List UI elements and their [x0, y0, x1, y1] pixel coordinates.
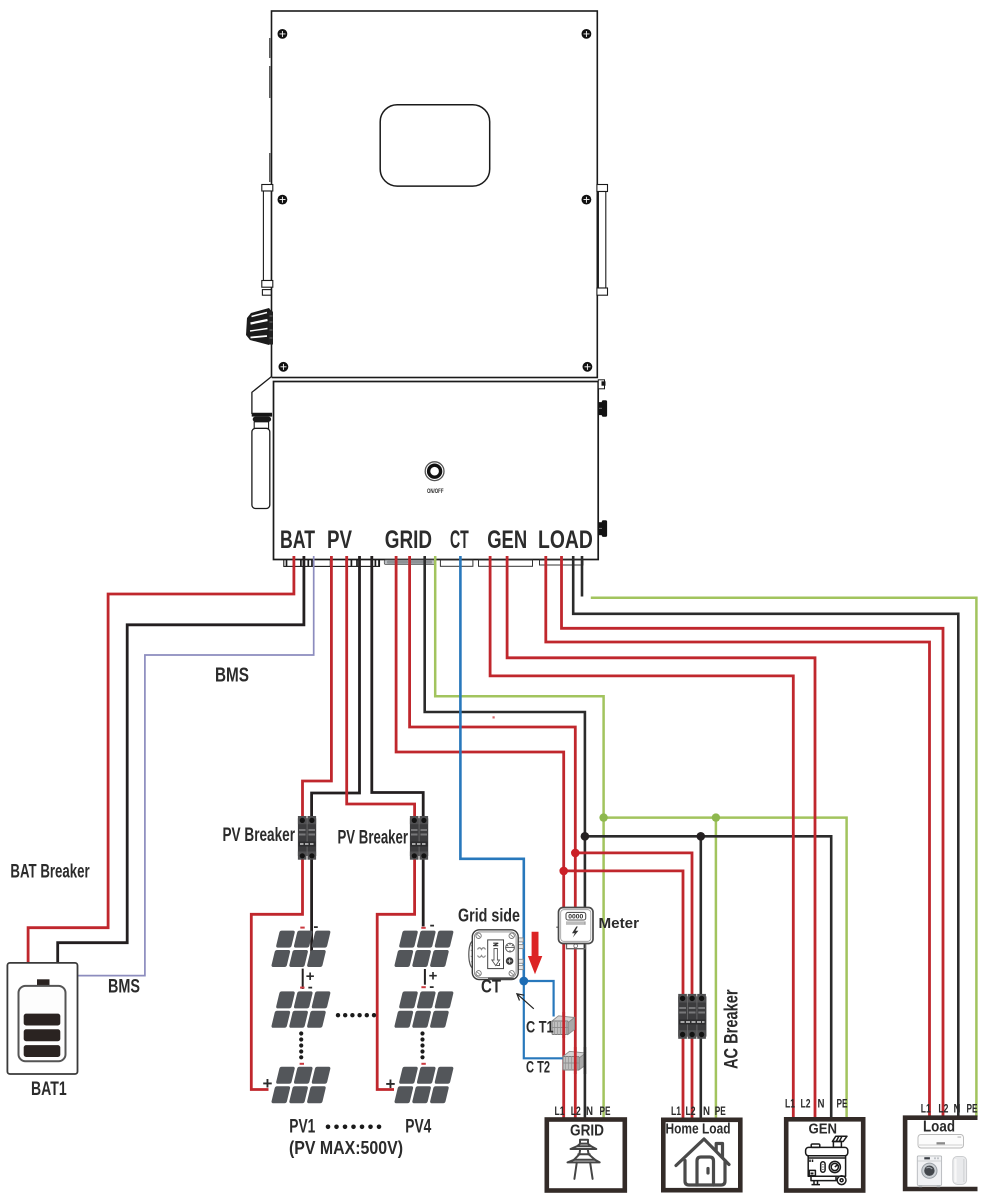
AC breaker 3-pole: [678, 994, 706, 1039]
screw bottom-right: [583, 362, 593, 372]
svg-text:-: -: [308, 979, 313, 996]
svg-text:Load: Load: [923, 1119, 955, 1136]
wire BAT- black to battery: [58, 556, 304, 963]
GEN terminal strip: [479, 560, 533, 566]
wire L2 branch to Home Load: [575, 853, 692, 1118]
red tick string1 panel1: [300, 927, 304, 929]
screw top-right: [582, 29, 592, 39]
CT1 clamp: [552, 1016, 575, 1035]
breaker PV1: [298, 816, 316, 860]
right connector lower: [598, 520, 607, 537]
wire LOAD N black: [573, 556, 958, 1117]
meter device: [556, 908, 593, 949]
wire LOAD L1 red: [546, 556, 930, 1117]
PV string 1 panel 2: [271, 991, 331, 1027]
series dots string2: [420, 1031, 424, 1059]
svg-text:GEN: GEN: [809, 1122, 838, 1138]
inverter display window: [380, 105, 490, 186]
svg-text:N: N: [586, 1104, 593, 1118]
red tick string2 panel1: [421, 927, 425, 929]
wire LOAD L2 red: [562, 556, 944, 1117]
PV string 1 panel 3: [271, 1067, 331, 1103]
wire L1 branch to Home Load: [564, 871, 683, 1118]
wire PV1+ red to PV breaker 1: [303, 556, 332, 817]
svg-text:N: N: [703, 1104, 710, 1118]
svg-text:PV4: PV4: [405, 1116, 431, 1137]
wire LOAD PE green: [591, 598, 977, 1117]
battery icon cap: [37, 979, 50, 986]
svg-text:PV: PV: [327, 526, 352, 554]
svg-text:-: -: [429, 978, 434, 995]
junction node CT blue: [519, 977, 528, 986]
antenna neck: [254, 422, 268, 429]
washing machine icon: [917, 1156, 941, 1187]
svg-text:CT: CT: [450, 526, 469, 554]
series link string1: [302, 969, 304, 989]
GEN box terminal labels: [785, 1097, 848, 1111]
BAT/PV terminal strip: [284, 560, 380, 567]
red tick string1 panel3: [300, 1063, 304, 1065]
svg-text:C T2: C T2: [526, 1058, 550, 1077]
GEN box: [786, 1119, 863, 1190]
wire LOAD PE black stub: [581, 556, 584, 597]
PV string 2 panel 1: [394, 931, 454, 967]
svg-text:N: N: [818, 1097, 825, 1111]
screw top-left: [278, 29, 288, 39]
wire PE branch to GEN: [604, 818, 847, 1118]
svg-text:L1: L1: [555, 1104, 565, 1118]
LOAD terminal strip: [540, 560, 584, 565]
wire PV1- black to PV breaker 1: [312, 556, 360, 817]
svg-text:L1: L1: [671, 1104, 681, 1118]
inverter upper cabinet: [272, 11, 598, 378]
svg-text:C T1: C T1: [526, 1018, 554, 1037]
junction node N-HomeLoad: [697, 832, 706, 841]
inverter lower cabinet: [274, 382, 599, 560]
svg-text:AC Breaker: AC Breaker: [722, 989, 743, 1069]
svg-text:BAT1: BAT1: [31, 1079, 67, 1100]
wire GRID L2 red over CT2: [574, 1047, 577, 1074]
red direction arrow: [528, 932, 542, 975]
wire PV breaker 1 black output into panel 1: [310, 859, 313, 956]
junction node L2: [571, 849, 580, 858]
wire PV4- black to PV breaker 2: [372, 556, 423, 817]
wire BMS purple: [78, 556, 314, 976]
svg-text:PV1: PV1: [289, 1116, 315, 1137]
svg-text:L2: L2: [571, 1104, 581, 1118]
annotation arrow to CT node: [517, 994, 534, 1009]
battery BAT1 box: [7, 963, 77, 1074]
GRID terminal strip: [384, 560, 435, 565]
svg-text:GEN: GEN: [487, 526, 527, 554]
svg-text:L1: L1: [785, 1097, 795, 1111]
svg-text:GRID: GRID: [570, 1123, 604, 1140]
junction node PE-HomeLoad: [712, 813, 720, 821]
screw mid-left: [278, 195, 288, 205]
red tick string1 panel2: [300, 987, 304, 989]
wire PV4+ red to PV breaker 2: [347, 556, 415, 817]
svg-text:-: -: [430, 917, 435, 934]
wire BAT+ red to battery: [28, 556, 294, 963]
Load box open-right frame: [905, 1118, 977, 1189]
svg-text:L2: L2: [938, 1102, 948, 1116]
wire GRID L1 red: [396, 556, 564, 1118]
wire N branch to Home Load: [699, 836, 702, 1118]
PV string 1 panel 1: [271, 931, 331, 967]
Load box terminal labels: [921, 1102, 978, 1116]
wire GRID L2 red: [410, 556, 576, 1118]
battery icon body: [19, 986, 66, 1061]
wire GRID N black: [425, 556, 585, 1118]
Home Load box: [663, 1120, 740, 1190]
air conditioner icon: [918, 1135, 964, 1149]
svg-text:LOAD: LOAD: [538, 526, 593, 554]
junction node L1: [559, 867, 568, 876]
wire GEN L1 red: [490, 556, 793, 1118]
side clamp device: [246, 308, 273, 345]
red tick string2 panel3: [421, 1063, 425, 1065]
svg-text:BMS: BMS: [108, 977, 140, 998]
Home Load box terminal labels: [671, 1104, 726, 1118]
right mounting rail: [597, 185, 608, 296]
svg-text:-: -: [313, 918, 318, 935]
junction node N-GRID: [581, 832, 590, 841]
svg-text:+: +: [263, 1074, 273, 1093]
CT terminal strip: [440, 560, 473, 566]
wire N branch to GEN: [585, 836, 831, 1118]
series link string2: [424, 969, 426, 985]
breaker PV2: [410, 816, 428, 860]
battery bar 3: [24, 1045, 61, 1057]
wire GRID L1 red over CT1: [562, 1012, 565, 1038]
svg-text:N: N: [954, 1102, 961, 1116]
CT meter device: [469, 930, 523, 980]
antenna cap bands: [252, 413, 272, 416]
svg-text:(PV MAX:500V): (PV MAX:500V): [289, 1138, 403, 1158]
svg-text:ON/OFF: ON/OFF: [427, 489, 444, 495]
svg-text:BAT: BAT: [280, 526, 315, 554]
svg-text:Home Load: Home Load: [666, 1122, 731, 1138]
water heater icon: [953, 1156, 967, 1184]
svg-text:Grid side: Grid side: [458, 906, 520, 926]
svg-text:Meter: Meter: [599, 915, 640, 932]
svg-text:BMS: BMS: [215, 665, 249, 687]
right top knob: [598, 380, 605, 389]
right connector upper: [598, 400, 607, 417]
GRID box: [547, 1120, 625, 1191]
wire CT blue: [460, 556, 523, 981]
svg-text:GRID: GRID: [385, 526, 432, 554]
parallel dots between strings: [336, 1013, 376, 1017]
left mounting rail: [262, 185, 273, 296]
wire PV breaker 1 red output to panel string 1: [251, 859, 302, 1090]
wire PE branch to Home Load: [715, 818, 718, 1118]
transmission tower icon: [568, 1140, 600, 1179]
junction node PE-GRID: [599, 813, 607, 821]
stray red speck: [493, 716, 495, 718]
svg-text:PE: PE: [837, 1097, 848, 1111]
svg-text:L2: L2: [686, 1104, 696, 1118]
svg-text:L1: L1: [921, 1102, 931, 1116]
battery bar 2: [24, 1029, 61, 1041]
wire GRID PE green: [435, 556, 603, 1118]
svg-text:PV Breaker: PV Breaker: [223, 825, 296, 846]
house icon: [676, 1139, 729, 1185]
wire PV breaker 2 black output: [422, 859, 425, 926]
wire GEN L2 red: [507, 556, 815, 1118]
PV string 2 panel 2: [394, 991, 454, 1027]
left edge hinge ticks: [269, 38, 271, 182]
antenna stick top slope: [252, 377, 272, 414]
red tick string2 panel2: [421, 986, 425, 988]
svg-text:PE: PE: [715, 1104, 726, 1118]
screw bottom-left: [279, 362, 289, 372]
svg-text:CT: CT: [481, 977, 501, 997]
wire PV breaker 2 red output to panel string 2: [377, 859, 414, 1090]
svg-text:PV Breaker: PV Breaker: [338, 828, 409, 849]
svg-text:BAT Breaker: BAT Breaker: [10, 862, 90, 883]
svg-text:PE: PE: [967, 1102, 978, 1116]
PV string 2 panel 3: [394, 1067, 454, 1103]
wire CT blue branch to CT2: [524, 981, 564, 1058]
svg-text:+: +: [386, 1075, 396, 1094]
svg-text:PE: PE: [600, 1104, 611, 1118]
generator icon: [806, 1136, 848, 1184]
antenna body: [252, 428, 270, 508]
wire GRID N black over CT2: [584, 1047, 587, 1074]
svg-text:L2: L2: [801, 1097, 811, 1111]
series dots string1: [299, 1031, 303, 1059]
CT2 clamp: [563, 1051, 586, 1070]
battery bar 1: [24, 1014, 61, 1026]
screw mid-right: [582, 195, 592, 205]
svg-text:0000: 0000: [568, 914, 584, 921]
dots between PV1 and PV4: [326, 1125, 382, 1130]
GRID box terminal labels: [555, 1104, 611, 1118]
wire CT blue branch to CT1: [524, 981, 554, 1017]
on/off button: [425, 462, 444, 481]
